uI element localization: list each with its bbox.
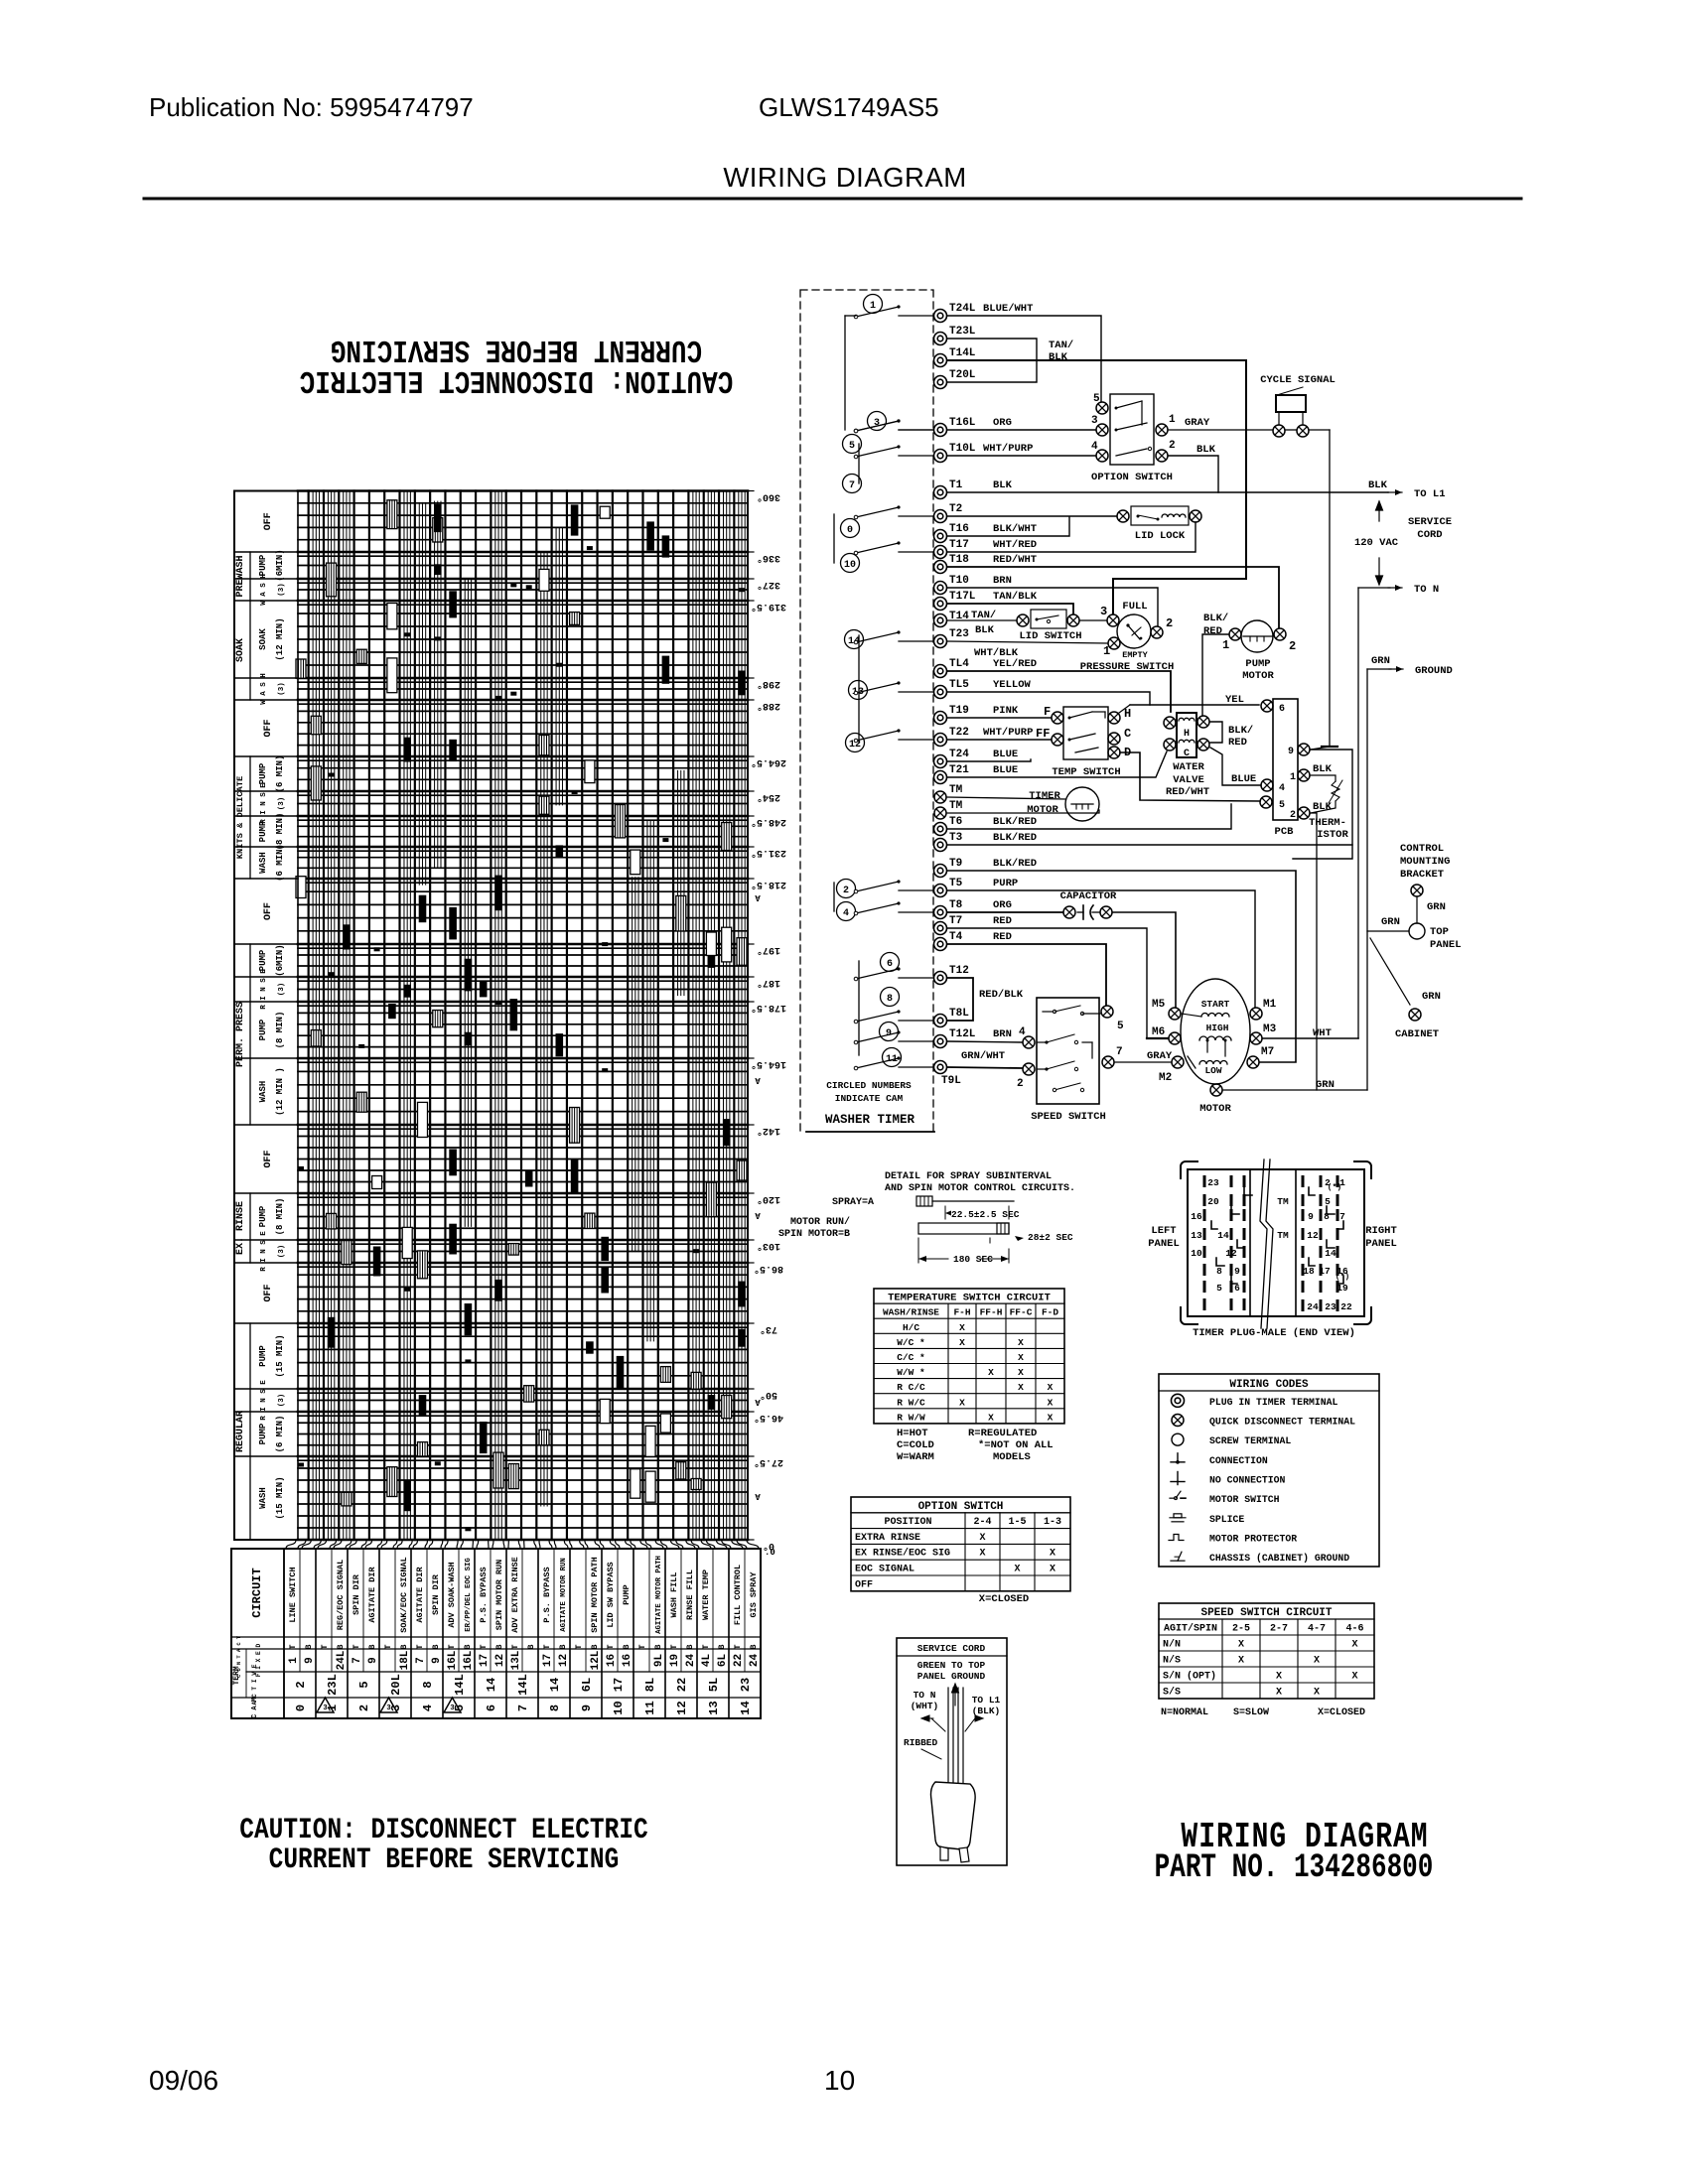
svg-text:9L: 9L	[653, 1654, 665, 1668]
svg-text:14: 14	[1325, 1248, 1336, 1259]
svg-text:TOP: TOP	[1430, 926, 1449, 938]
svg-text:X: X	[1048, 1412, 1054, 1423]
svg-text:THERM-: THERM-	[1309, 817, 1346, 829]
wire T6 blk/red	[947, 804, 1231, 829]
svg-text:22.5±2.5 SEC: 22.5±2.5 SEC	[951, 1209, 1020, 1220]
terminal T8	[934, 906, 947, 919]
svg-text:298°: 298°	[757, 678, 780, 690]
svg-text:187°: 187°	[757, 977, 780, 989]
svg-text:336°: 336°	[757, 552, 780, 564]
svg-text:B: B	[558, 1644, 568, 1649]
svg-text:BLK: BLK	[1196, 444, 1216, 456]
wire T24 blue	[947, 759, 1031, 761]
svg-text:B: B	[463, 1644, 473, 1649]
svg-text:BLK: BLK	[993, 479, 1013, 491]
svg-text:9: 9	[431, 1657, 443, 1664]
svg-text:N=NORMAL: N=NORMAL	[1161, 1707, 1208, 1718]
terminal T4	[934, 938, 947, 951]
wire T1 to L1	[947, 491, 1388, 493]
svg-text:QUICK DISCONNECT TERMINAL: QUICK DISCONNECT TERMINAL	[1209, 1417, 1355, 1428]
svg-text:EXTRA RINSE: EXTRA RINSE	[855, 1533, 920, 1544]
part number block	[1181, 1817, 1428, 1857]
svg-text:WASH: WASH	[258, 1081, 268, 1103]
timer chart vertical cam tracks	[308, 491, 310, 1541]
cam switch 7	[843, 475, 862, 493]
svg-text:PUMP: PUMP	[258, 1019, 268, 1040]
svg-text:2: 2	[294, 1681, 308, 1688]
svg-text:WASH FILL: WASH FILL	[669, 1572, 679, 1618]
svg-text:(3): (3)	[278, 583, 286, 597]
svg-text:MOTOR SWITCH: MOTOR SWITCH	[1209, 1494, 1280, 1505]
svg-text:12: 12	[494, 1654, 506, 1667]
svg-text:M2: M2	[1159, 1072, 1172, 1084]
svg-text:OFF: OFF	[263, 512, 274, 530]
svg-text:7: 7	[415, 1657, 427, 1664]
terminal T16	[934, 530, 947, 543]
svg-text:CORD: CORD	[1417, 529, 1442, 541]
svg-text:2: 2	[1166, 616, 1173, 630]
svg-text:CURRENT BEFORE SERVICING: CURRENT BEFORE SERVICING	[269, 1843, 620, 1877]
svg-text:FULL: FULL	[1122, 601, 1147, 613]
svg-text:50°: 50°	[760, 1389, 777, 1401]
svg-text:BRN: BRN	[993, 575, 1012, 587]
timer chart outer border	[234, 491, 748, 1541]
svg-text:14: 14	[485, 1678, 498, 1692]
svg-text:12: 12	[558, 1654, 570, 1667]
svg-text:MOTOR: MOTOR	[1199, 1103, 1231, 1115]
terminal T9	[934, 865, 947, 878]
svg-text:TAN/: TAN/	[971, 610, 996, 621]
wire T10 BRN to pressure 2	[947, 588, 1158, 625]
cam switch 9	[880, 1023, 899, 1041]
svg-text:WIRING DIAGRAM: WIRING DIAGRAM	[723, 162, 966, 193]
svg-text:PREWASH: PREWASH	[235, 555, 246, 597]
cam switch 8	[881, 988, 900, 1007]
svg-text:SPLICE: SPLICE	[1209, 1514, 1244, 1525]
svg-text:T: T	[701, 1644, 711, 1649]
svg-text:REGULAR: REGULAR	[235, 1411, 246, 1452]
svg-text:W/C *: W/C *	[897, 1337, 925, 1348]
svg-text:BLK: BLK	[1313, 763, 1333, 775]
svg-text:PUMP: PUMP	[258, 1205, 268, 1227]
svg-text:R C/C: R C/C	[897, 1382, 925, 1393]
timer internal wires	[844, 316, 846, 430]
PCB	[1273, 699, 1298, 820]
svg-text:R I N S E: R I N S E	[260, 1380, 268, 1421]
svg-text:X: X	[1018, 1382, 1024, 1393]
svg-text:WASH: WASH	[258, 1487, 268, 1509]
svg-text:1: 1	[1222, 638, 1229, 652]
svg-text:F: F	[1044, 705, 1051, 719]
terminal T10L	[934, 450, 947, 463]
svg-text:3: 3	[1100, 605, 1107, 618]
svg-text:7: 7	[352, 1657, 363, 1664]
cam switch 3	[868, 412, 887, 431]
svg-text:TL4: TL4	[949, 658, 969, 670]
wire T16L to option 3	[947, 429, 1095, 431]
water valve	[1177, 713, 1196, 757]
svg-text:(8 MIN): (8 MIN)	[275, 1012, 285, 1049]
svg-text:.0: .0	[765, 1548, 775, 1558]
service cord box	[897, 1638, 1007, 1865]
svg-text:SERVICE: SERVICE	[1408, 516, 1452, 528]
wire T12L brn to speed4	[947, 1041, 1022, 1042]
svg-text:4: 4	[1091, 441, 1098, 453]
svg-text:X: X	[959, 1397, 965, 1408]
svg-text:GRN: GRN	[1422, 991, 1441, 1003]
svg-text:PLUG IN TIMER TERMINAL: PLUG IN TIMER TERMINAL	[1209, 1397, 1337, 1408]
svg-text:AGITATE MOTOR RUN: AGITATE MOTOR RUN	[560, 1558, 568, 1631]
washer timer dashed box	[800, 290, 933, 1132]
svg-text:0: 0	[847, 525, 853, 536]
wire lid sw right to pressure area	[1080, 619, 1106, 621]
svg-text:(12 MIN): (12 MIN)	[275, 617, 285, 660]
wire cycle to PCB9 vertical	[1311, 430, 1330, 750]
wire TL5 yellow to yel node	[947, 692, 1150, 705]
svg-text:23L: 23L	[326, 1674, 340, 1696]
svg-text:RIBBED: RIBBED	[904, 1737, 938, 1748]
svg-text:120°: 120°	[757, 1193, 780, 1205]
svg-text:2-7: 2-7	[1270, 1624, 1288, 1635]
svg-text:OPTION SWITCH: OPTION SWITCH	[1091, 472, 1173, 483]
svg-text:GROUND: GROUND	[1415, 665, 1453, 677]
svg-text:T14L: T14L	[949, 347, 976, 359]
wiring codes box	[1159, 1374, 1379, 1567]
svg-text:GRN: GRN	[1316, 1079, 1335, 1091]
svg-text:22: 22	[1340, 1301, 1352, 1312]
wire valve right loop	[1210, 722, 1222, 743]
svg-text:(*): (*)	[1328, 1183, 1341, 1192]
svg-text:ER/PP/DEL EOC SIG: ER/PP/DEL EOC SIG	[465, 1558, 473, 1632]
svg-text:LOW: LOW	[1204, 1065, 1221, 1076]
svg-text:C: C	[1124, 727, 1131, 741]
wire T22 whtpurp to FF	[947, 739, 1051, 741]
svg-text:EX. RINSE: EX. RINSE	[235, 1201, 246, 1255]
svg-text:S/S: S/S	[1163, 1687, 1181, 1699]
svg-text:12: 12	[1225, 1248, 1237, 1259]
svg-text:PUMP: PUMP	[1245, 658, 1270, 670]
wire T5 purp to M1	[947, 890, 1255, 1007]
svg-text:TL5: TL5	[949, 679, 969, 691]
option switch table	[851, 1497, 1070, 1591]
wire T23L-T20L loop	[947, 339, 1037, 382]
timer chart bottom circuit table	[231, 1549, 761, 1718]
svg-text:16: 16	[622, 1654, 633, 1667]
svg-text:MOTOR: MOTOR	[1027, 804, 1058, 816]
svg-text:YEL: YEL	[1225, 694, 1244, 706]
svg-text:T9: T9	[949, 858, 962, 870]
svg-text:M6: M6	[1152, 1026, 1165, 1038]
timer plug-male end view	[1188, 1169, 1364, 1316]
svg-text:BLK/: BLK/	[1228, 725, 1253, 737]
svg-text:OFF: OFF	[263, 1150, 274, 1167]
svg-text:ORG: ORG	[993, 899, 1012, 911]
svg-text:GLWS1749AS5: GLWS1749AS5	[759, 92, 939, 122]
svg-text:T: T	[574, 1644, 584, 1649]
svg-text:0: 0	[294, 1705, 308, 1711]
svg-text:CHASSIS (CABINET) GROUND: CHASSIS (CABINET) GROUND	[1209, 1553, 1349, 1564]
svg-text:BLK: BLK	[975, 624, 995, 636]
svg-text:SPIN DIR: SPIN DIR	[352, 1573, 361, 1615]
service cord plug	[947, 1688, 949, 1787]
svg-text:(6MIN): (6MIN)	[275, 944, 285, 976]
svg-text:C: C	[1184, 749, 1190, 759]
terminal TL4	[934, 665, 947, 678]
svg-text:B: B	[653, 1644, 663, 1649]
svg-text:T8L: T8L	[949, 1008, 969, 1020]
svg-text:T: T	[479, 1644, 489, 1649]
svg-text:1-3: 1-3	[1044, 1517, 1061, 1528]
terminal T24L	[934, 310, 947, 323]
cabinet ground	[1370, 938, 1410, 1005]
svg-text:(6 MIN): (6 MIN)	[275, 1416, 285, 1453]
svg-text:(3): (3)	[278, 1245, 286, 1259]
svg-text:2-5: 2-5	[1232, 1624, 1250, 1635]
svg-text:(*): (*)	[1336, 1273, 1349, 1282]
svg-text:INDICATE CAM: INDICATE CAM	[835, 1093, 904, 1104]
svg-text:16: 16	[1191, 1211, 1202, 1222]
wire T3 blk/red	[947, 844, 1352, 846]
svg-text:TIMER: TIMER	[1029, 790, 1060, 802]
svg-text:X=CLOSED: X=CLOSED	[1318, 1707, 1365, 1718]
svg-text:SOAK: SOAK	[258, 628, 268, 650]
svg-text:R I N S E: R I N S E	[260, 1231, 268, 1272]
svg-text:LINE SWITCH: LINE SWITCH	[288, 1567, 298, 1622]
wire M6 trunk	[1147, 1037, 1168, 1039]
wire M3 wht	[1263, 1037, 1358, 1039]
svg-text:TO L1: TO L1	[972, 1695, 1001, 1706]
wire speed7 gray to M2	[1115, 1061, 1171, 1063]
svg-text:PANEL GROUND: PANEL GROUND	[917, 1671, 986, 1682]
svg-text:X: X	[1050, 1565, 1055, 1575]
svg-text:(3): (3)	[278, 1394, 286, 1408]
svg-text:6L: 6L	[580, 1678, 594, 1692]
svg-text:TM: TM	[1277, 1196, 1289, 1207]
svg-text:9: 9	[1288, 747, 1294, 757]
svg-text:(BLK): (BLK)	[972, 1706, 1001, 1716]
wire T10L to option 4	[947, 455, 1095, 457]
svg-text:319.5°: 319.5°	[751, 601, 786, 613]
svg-text:T: T	[415, 1644, 425, 1649]
svg-text:T7: T7	[949, 915, 962, 927]
svg-text:WHT/PURP: WHT/PURP	[983, 727, 1033, 739]
svg-text:3: 3	[1091, 415, 1098, 427]
svg-text:MOTOR: MOTOR	[1242, 670, 1274, 682]
terminal T8L	[934, 1015, 947, 1027]
svg-text:23: 23	[1325, 1301, 1336, 1312]
thermistor	[1293, 750, 1352, 859]
svg-text:10: 10	[612, 1701, 626, 1714]
svg-text:2: 2	[843, 886, 849, 896]
svg-text:TM: TM	[949, 800, 963, 812]
wire option2 BLK down to L1 line	[1169, 456, 1218, 492]
wire valve C to pcb4	[1210, 748, 1261, 785]
terminal T24	[934, 755, 947, 768]
svg-text:EOC SIGNAL: EOC SIGNAL	[855, 1565, 914, 1575]
svg-text:SPEED SWITCH CIRCUIT: SPEED SWITCH CIRCUIT	[1200, 1607, 1332, 1619]
svg-text:B: B	[590, 1644, 600, 1649]
terminal T10	[934, 582, 947, 595]
svg-text:A: A	[755, 1491, 761, 1501]
svg-text:M7: M7	[1261, 1046, 1274, 1058]
svg-text:8: 8	[887, 994, 893, 1005]
wire T21 blue to valve C left	[947, 751, 1167, 777]
svg-text:B: B	[749, 1644, 759, 1649]
svg-text:B: B	[685, 1644, 695, 1649]
svg-text:FF-H: FF-H	[980, 1307, 1003, 1318]
svg-text:CAUTION: DISCONNECT ELECTRIC: CAUTION: DISCONNECT ELECTRIC	[239, 1814, 647, 1847]
lid switch	[1017, 614, 1029, 626]
svg-text:T24: T24	[949, 749, 969, 760]
svg-text:X: X	[1351, 1640, 1357, 1651]
svg-text:START: START	[1201, 999, 1230, 1010]
svg-text:S=SLOW: S=SLOW	[1233, 1707, 1269, 1718]
svg-text:F-D: F-D	[1042, 1307, 1058, 1318]
wire TM2 loop	[947, 810, 1099, 813]
wire T19 pink to F	[947, 717, 1051, 719]
svg-text:B: B	[494, 1644, 504, 1649]
svg-text:T18: T18	[949, 554, 969, 566]
svg-text:B: B	[431, 1644, 441, 1649]
svg-text:GREEN TO TOP: GREEN TO TOP	[917, 1660, 986, 1671]
terminal T1	[934, 486, 947, 499]
svg-text:X: X	[959, 1337, 965, 1348]
wire T24L to option 5	[947, 316, 1101, 401]
svg-text:AGITATE DIR: AGITATE DIR	[415, 1567, 425, 1623]
svg-text:RIGHT: RIGHT	[1365, 1225, 1397, 1237]
svg-text:AGITATE MOTOR PATH: AGITATE MOTOR PATH	[655, 1556, 663, 1634]
svg-text:PUMP: PUMP	[258, 820, 268, 842]
terminal TM	[934, 791, 946, 803]
svg-text:FF-C: FF-C	[1010, 1307, 1033, 1318]
svg-text:P.S. BYPASS: P.S. BYPASS	[479, 1567, 489, 1622]
svg-text:4L: 4L	[701, 1654, 713, 1668]
svg-text:X: X	[959, 1322, 965, 1333]
cam switch 14	[845, 630, 864, 649]
svg-text:327°: 327°	[757, 579, 780, 591]
svg-text:X: X	[1314, 1656, 1320, 1667]
svg-text:1-5: 1-5	[1008, 1517, 1026, 1528]
svg-text:1: 1	[870, 301, 876, 312]
svg-text:REG/EOC SIGNAL: REG/EOC SIGNAL	[336, 1560, 346, 1630]
svg-text:B: B	[717, 1644, 727, 1649]
svg-text:VALVE: VALVE	[1173, 774, 1204, 786]
svg-text:5: 5	[1093, 393, 1100, 405]
svg-text:PANEL: PANEL	[1148, 1238, 1180, 1250]
svg-text:BLUE/WHT: BLUE/WHT	[983, 303, 1033, 315]
svg-text:KNITS & DELICATE: KNITS & DELICATE	[235, 776, 245, 859]
svg-text:BLK/RED: BLK/RED	[993, 858, 1037, 870]
main motor	[1181, 979, 1250, 1084]
svg-text:180 SEC: 180 SEC	[953, 1254, 993, 1265]
svg-text:OFF: OFF	[855, 1579, 873, 1590]
svg-text:11: 11	[643, 1701, 657, 1714]
svg-text:4-6: 4-6	[1345, 1624, 1363, 1635]
svg-text:C A M: C A M	[251, 1698, 259, 1718]
wire option1 gray to cycle signal	[1169, 429, 1272, 431]
svg-text:BLK: BLK	[1368, 479, 1388, 491]
svg-text:POSITION: POSITION	[884, 1517, 931, 1528]
svg-text:SPIN MOTOR RUN: SPIN MOTOR RUN	[494, 1560, 504, 1630]
svg-text:WASHER TIMER: WASHER TIMER	[825, 1113, 915, 1127]
terminal T2	[934, 510, 947, 523]
svg-text:(15 MIN): (15 MIN)	[275, 1334, 285, 1377]
wire pump 1 to water valve right top	[1202, 634, 1228, 716]
svg-text:WHT/PURP: WHT/PURP	[983, 443, 1033, 455]
svg-text:TERM.: TERM.	[232, 1661, 241, 1685]
terminal T3	[934, 839, 947, 852]
svg-text:OFF: OFF	[263, 719, 274, 737]
svg-text:SCREW TERMINAL: SCREW TERMINAL	[1209, 1435, 1291, 1446]
svg-text:X: X	[988, 1367, 994, 1378]
svg-text:2-4: 2-4	[973, 1517, 991, 1528]
svg-text:SERVICE CORD: SERVICE CORD	[917, 1643, 986, 1654]
svg-text:C=COLD: C=COLD	[897, 1439, 934, 1451]
svg-text:SPEED SWITCH: SPEED SWITCH	[1031, 1111, 1106, 1123]
svg-text:T2: T2	[949, 503, 962, 515]
svg-text:B: B	[336, 1644, 346, 1649]
svg-text:73°: 73°	[760, 1323, 777, 1335]
svg-text:MOTOR PROTECTOR: MOTOR PROTECTOR	[1209, 1534, 1297, 1545]
svg-text:2: 2	[357, 1705, 371, 1711]
svg-text:S/N (OPT): S/N (OPT)	[1163, 1671, 1216, 1683]
terminal T14	[934, 614, 947, 627]
svg-text:8: 8	[548, 1705, 562, 1711]
svg-text:GRN: GRN	[1381, 916, 1400, 928]
svg-text:7: 7	[849, 480, 855, 491]
svg-text:WHT/RED: WHT/RED	[993, 539, 1037, 551]
svg-text:2: 2	[1017, 1078, 1024, 1090]
svg-text:BLK: BLK	[1049, 351, 1068, 363]
svg-text:10: 10	[844, 560, 856, 571]
cam switch 4	[837, 902, 856, 921]
svg-text:7: 7	[1339, 1211, 1345, 1222]
bottom caution text	[239, 1814, 647, 1847]
svg-text:SPIN MOTOR=B: SPIN MOTOR=B	[778, 1229, 850, 1240]
svg-text:T23: T23	[949, 628, 969, 640]
svg-text:(3): (3)	[278, 797, 286, 811]
svg-text:RED: RED	[1228, 737, 1247, 749]
svg-text:23: 23	[739, 1678, 753, 1692]
svg-text:WASH: WASH	[258, 852, 268, 874]
wire pcb2 down	[1311, 813, 1317, 1090]
svg-text:A: A	[755, 1210, 761, 1220]
svg-text:TM: TM	[1277, 1230, 1289, 1241]
svg-text:3: 3	[450, 1705, 455, 1712]
right verticals	[1357, 588, 1359, 1038]
svg-text:46.5°: 46.5°	[754, 1412, 783, 1424]
svg-text:F-H: F-H	[953, 1307, 970, 1318]
svg-text:17: 17	[479, 1654, 491, 1667]
svg-text:OFF: OFF	[263, 902, 274, 920]
svg-text:X: X	[1276, 1688, 1282, 1699]
svg-text:T: T	[383, 1644, 393, 1649]
svg-text:SPIN DIR: SPIN DIR	[431, 1573, 441, 1615]
svg-text:T: T	[510, 1644, 520, 1649]
svg-text:B: B	[367, 1644, 377, 1649]
svg-text:28±2 SEC: 28±2 SEC	[1028, 1232, 1073, 1243]
cam switch 0	[841, 519, 860, 538]
svg-text:13: 13	[707, 1701, 721, 1714]
svg-text:SPRAY=A: SPRAY=A	[832, 1197, 874, 1208]
svg-text:CIRCUIT: CIRCUIT	[250, 1568, 264, 1617]
svg-text:LID LOCK: LID LOCK	[1135, 530, 1186, 542]
svg-text:24: 24	[749, 1654, 761, 1668]
svg-text:TO N: TO N	[914, 1690, 936, 1701]
svg-text:27.5°: 27.5°	[754, 1456, 783, 1468]
svg-text:TEMP SWITCH: TEMP SWITCH	[1052, 766, 1120, 778]
svg-text:X: X	[1048, 1382, 1054, 1393]
